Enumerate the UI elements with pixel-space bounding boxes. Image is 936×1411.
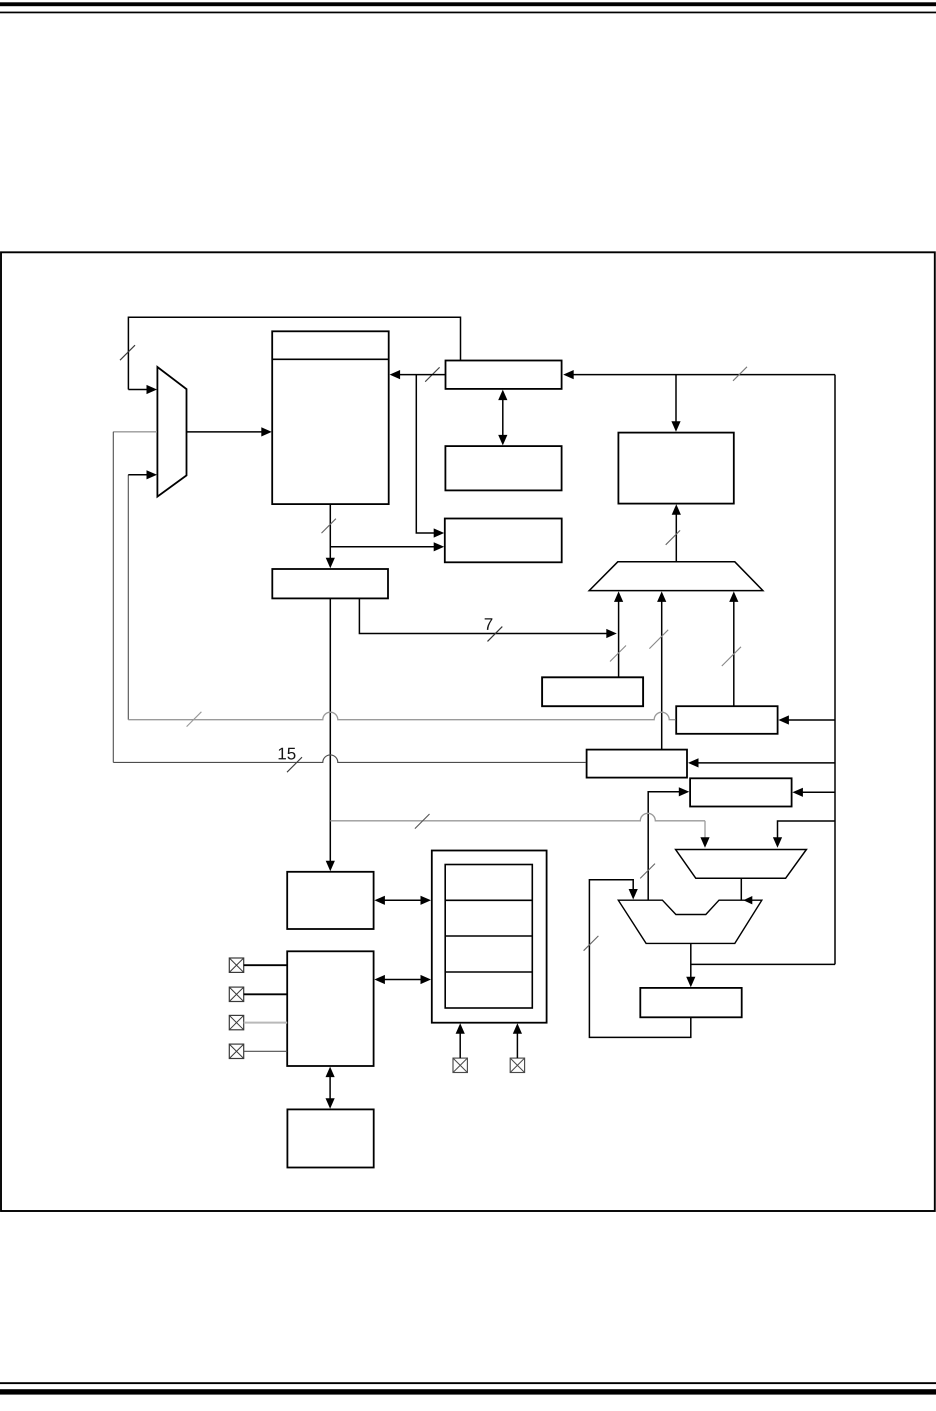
wire: PC latch down-left long vertical to timer: [329, 598, 331, 863]
bus-width slash on 15-bus: [287, 757, 302, 772]
wire: riser 2 (FSR to mux): [661, 600, 663, 750]
wire: ALU output to W register: [690, 943, 692, 979]
wire: black branch from right bus down into upper mux: [778, 821, 836, 840]
wire: 15-bus to FSR (with hop): [113, 755, 586, 762]
wire: right long vertical data bus (x=835): [834, 375, 836, 965]
wire: gray bus from PC column to upper mux (with hop): [330, 813, 705, 820]
wire: PC mux output into program memory: [187, 431, 263, 433]
wire: lower mux up into program counter: [675, 512, 677, 562]
wire: branch down from instruction bus to decode box: [416, 375, 436, 533]
label: 7: [485, 618, 493, 630]
wire: double arrow GPIO to RAM: [382, 979, 423, 981]
wire: corner from ALU riser into literal register left edge: [648, 792, 681, 900]
wire: long vertical B (lower mux input riser): [127, 475, 129, 720]
box: program counter latch: [272, 569, 388, 598]
bus-width slash on top feedback bus: [120, 345, 135, 360]
wire: riser 1 (status to mux): [618, 600, 620, 677]
box: instruction register: [446, 361, 562, 389]
box: status register: [542, 677, 643, 706]
alu: arithmetic logic unit: [618, 900, 762, 943]
bus-width slash on ALU riser: [640, 864, 655, 879]
bus-width slash on gray mux bus: [415, 814, 430, 829]
wire: arrow from right bus into FSR: [697, 762, 835, 764]
wire: arrow 2 into control box (from program memory latch): [330, 546, 436, 548]
divider: RAM row 3: [445, 971, 532, 973]
wire: double arrow GPIO to oscillator box: [329, 1074, 331, 1101]
box: W register: [640, 988, 741, 1017]
bus-width slash on W feedback: [584, 936, 599, 951]
bus-width slash on riser 1: [610, 646, 626, 662]
mux: program counter mux (trapezoid): [157, 367, 186, 497]
wire: double arrow instruction register to decode: [502, 398, 504, 438]
mux: RAM address mux (trapezoid): [589, 562, 763, 591]
top rule thin: [0, 12, 936, 14]
wire: GP0 to port: [244, 964, 288, 966]
label: 15: [279, 748, 286, 760]
pin: VSS pad: [510, 1058, 524, 1072]
pin: GP1 pad: [229, 987, 243, 1001]
box: FSR register: [587, 750, 687, 778]
bottom rule thick: [0, 1389, 936, 1394]
wire: VDD to RAM block: [459, 1031, 461, 1058]
box: mux register: [676, 706, 777, 734]
figure frame: [1, 252, 935, 1211]
wire: left arrowhead at ALU top edge: [743, 896, 752, 904]
wire: bus from right vertical into instruction register: [572, 374, 835, 376]
box: timer0: [287, 872, 373, 929]
wire: long vertical A (stack bus down): [112, 432, 114, 763]
bottom rule thin: [0, 1382, 936, 1384]
mux: ALU input mux (trapezoid): [676, 850, 807, 879]
pin: GP0 pad: [229, 958, 243, 972]
wire: arrow into PC mux upper input: [128, 389, 147, 391]
top rule thick: [0, 2, 936, 6]
wire: program memory down to PC latch: [329, 504, 331, 560]
wire: right bus corner joining ALU output: [691, 963, 835, 965]
wire: riser 3 (mux box to mux): [733, 600, 735, 706]
pin: GP3 pad: [229, 1044, 243, 1058]
bus-width slash on program memory address bus: [322, 519, 336, 533]
wire: arrow into program memory right edge: [399, 374, 446, 376]
wire: PC latch second leg to 7-bus: [359, 598, 608, 633]
bus-width slash on gray bus: [187, 712, 202, 727]
wire: arrow into PC mux lower input: [128, 474, 147, 476]
wire: gray bus to mux register (with hops): [128, 712, 675, 719]
pin: VDD pad: [453, 1058, 467, 1072]
wire: branch down into program counter box: [675, 375, 677, 424]
divider: RAM row 2: [445, 935, 532, 937]
wire: GP3 to port (thin gray): [244, 1050, 288, 1052]
box: GPIO port: [287, 951, 373, 1066]
box: RAM outer: [432, 851, 547, 1023]
box: literal register: [690, 778, 792, 806]
bus-width slash on riser 2: [649, 630, 668, 649]
bus-width slash on program-memory write bus: [425, 367, 439, 381]
wire: top feedback bus (y=317) with corner down to instruction register: [128, 317, 460, 389]
box: RAM inner file registers: [445, 865, 532, 1009]
wire: GP1 to port: [244, 993, 288, 995]
wire: arrow from right bus into literal register right edge: [801, 791, 835, 793]
box: program counter: [618, 433, 733, 504]
bus-width slash on instruction bus: [733, 367, 747, 381]
wire: double arrow timer0 to RAM: [382, 899, 423, 901]
wire: gray stack bus into PC mux (left): [113, 431, 157, 433]
wire: GP2 to port (light gray): [244, 1022, 288, 1024]
box: device reset / control: [445, 519, 562, 563]
bus-width slash on riser 3: [722, 647, 741, 666]
box: program memory: [272, 331, 389, 504]
box: instruction decode: [445, 446, 561, 490]
wire: W feedback loop: [589, 880, 690, 1038]
wire: VSS to RAM block: [516, 1031, 518, 1058]
box: internal oscillator: [287, 1109, 373, 1167]
wire: arrow from right bus into mux register: [787, 719, 835, 721]
divider: RAM row 1: [445, 899, 532, 901]
pin: GP2 pad: [229, 1015, 243, 1029]
bus-width slash on 7-bus: [488, 627, 503, 642]
wire: upper mux output down to ALU: [740, 878, 742, 900]
bus-width slash on PC input bus: [666, 530, 680, 544]
divider: program memory header line: [272, 358, 389, 360]
